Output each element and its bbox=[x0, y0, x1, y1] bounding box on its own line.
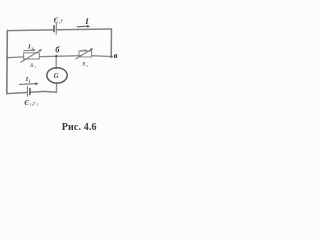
wire galvanometer top stub bbox=[55, 56, 57, 69]
battery E (top), long plate bbox=[55, 23, 57, 35]
current arrow above R2 bbox=[80, 49, 85, 51]
resistor R2 box bbox=[79, 51, 92, 57]
wire top bbox=[7, 29, 111, 31]
wire middle branch left bbox=[7, 56, 24, 59]
current arrow I on top wire bbox=[77, 25, 87, 28]
resistor R2 diagonal arrow bbox=[76, 49, 92, 59]
svg-text:G: G bbox=[54, 73, 59, 80]
svg-text:1: 1 bbox=[36, 102, 38, 107]
battery E (top), short plate bbox=[53, 26, 55, 32]
svg-text:2: 2 bbox=[86, 64, 88, 68]
svg-text:,r: ,r bbox=[59, 19, 64, 25]
svg-text:б: б bbox=[55, 46, 60, 55]
svg-text:1: 1 bbox=[35, 65, 37, 69]
wire right bbox=[110, 29, 112, 57]
current arrow I1 above bottom wire bbox=[20, 83, 36, 86]
battery E1 (bottom), short plate bbox=[29, 89, 31, 95]
galvanometer G circle bbox=[47, 68, 67, 83]
resistor R1 box bbox=[24, 53, 40, 59]
svg-text:1: 1 bbox=[29, 79, 31, 84]
svg-text:R: R bbox=[29, 63, 34, 69]
node junction dot at б bbox=[55, 55, 58, 58]
wire galvanometer bottom stub bbox=[55, 83, 57, 93]
wire left bbox=[6, 30, 9, 93]
node junction dot at left wire bbox=[6, 56, 8, 58]
svg-text:I: I bbox=[84, 16, 89, 26]
svg-text:2: 2 bbox=[30, 47, 33, 51]
resistor R1 diagonal arrow bbox=[21, 50, 41, 62]
svg-text:в: в bbox=[114, 50, 118, 60]
current arrow I2 above R1 bbox=[24, 49, 34, 52]
wire bottom bbox=[7, 91, 57, 93]
battery E1 (bottom), long plate bbox=[26, 87, 28, 97]
wire middle branch center bbox=[39, 56, 81, 57]
wire middle branch right bbox=[91, 55, 111, 58]
node junction dot right bbox=[110, 55, 113, 58]
svg-text:Рис. 4.6: Рис. 4.6 bbox=[62, 122, 97, 133]
